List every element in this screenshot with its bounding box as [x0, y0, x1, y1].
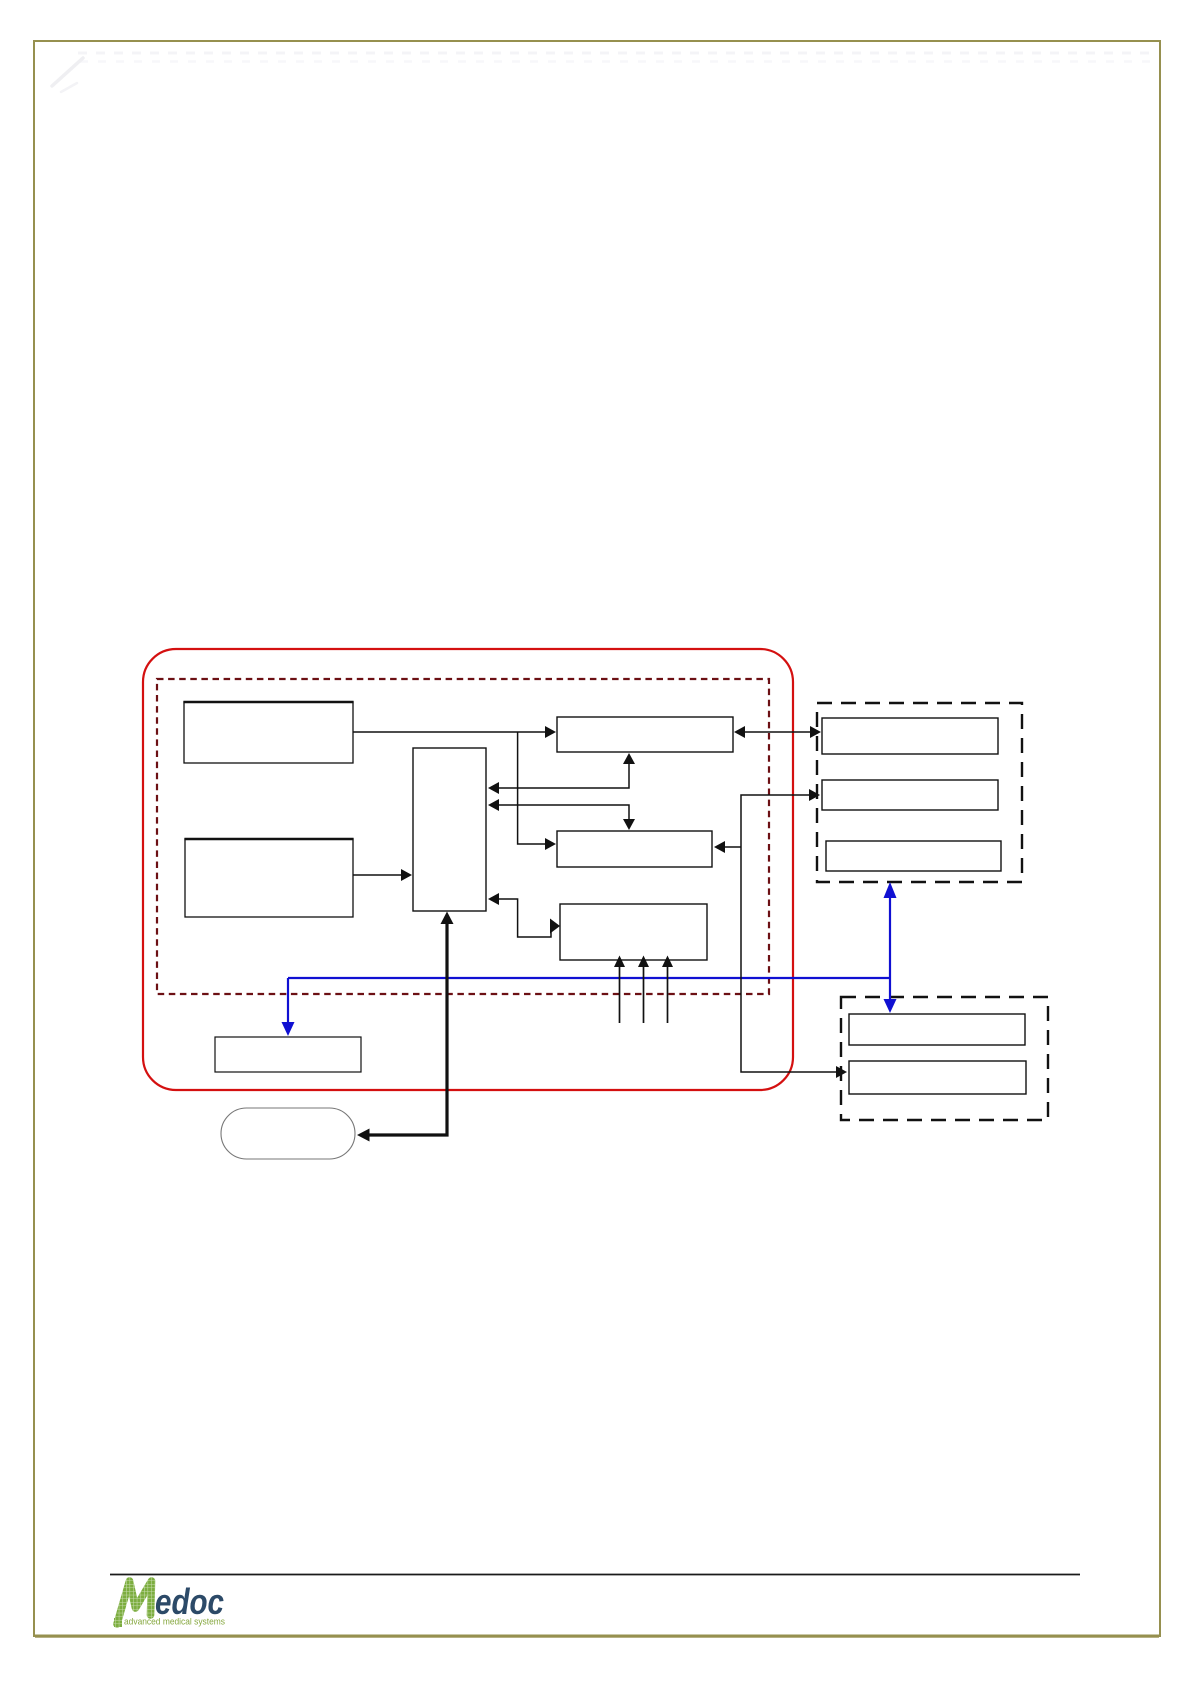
wire C: B4 bottom to B3 right (double arrow)	[488, 753, 635, 794]
box R2	[822, 780, 998, 810]
wire B: junction down to B5	[518, 732, 556, 850]
wire trio into B6 bottom	[614, 956, 673, 1024]
wire E: B3 right zigzag to B6 left	[488, 893, 560, 937]
wire G: thick double arrow B3 bottom to stadium	[357, 912, 454, 1142]
wire F: B2 to B3	[353, 869, 412, 881]
svg-text:advanced medical systems: advanced medical systems	[124, 1617, 225, 1628]
box B4 top-middle	[557, 717, 733, 752]
dashed box D2 bottom-right	[841, 997, 1048, 1120]
wire D: B3 right to B5 top (double arrow)	[488, 799, 635, 830]
wire I: long feed to R2, R5 and B5	[714, 789, 847, 1078]
wire H: B4 right to R1 (double arrow)	[734, 726, 821, 738]
red rounded enclosure	[143, 649, 793, 1090]
box R3	[826, 841, 1001, 871]
box B5 middle	[557, 831, 712, 867]
box B1 top-left	[183, 702, 353, 763]
stadium shape	[221, 1108, 355, 1159]
box B3 tall center	[413, 748, 486, 911]
logo Medoc M glyph	[114, 1581, 152, 1627]
box R5	[849, 1061, 1026, 1094]
footer rule	[110, 1574, 1080, 1576]
box B6 bottom-middle	[560, 904, 707, 960]
box R1	[822, 718, 998, 754]
ghost dashed row 1	[78, 52, 1150, 55]
wire A: B1 to B4	[353, 726, 556, 738]
dashed box D1 top-right	[817, 703, 1022, 882]
box B2 bottom-left	[184, 839, 353, 917]
dashed maroon boundary	[157, 679, 769, 994]
ghost dashed row 2	[80, 60, 1150, 63]
box R4	[849, 1014, 1025, 1045]
box B7 small bottom-left	[215, 1037, 361, 1072]
wire blue: distribution line	[282, 882, 897, 1036]
ghost pencil mark	[52, 58, 83, 92]
